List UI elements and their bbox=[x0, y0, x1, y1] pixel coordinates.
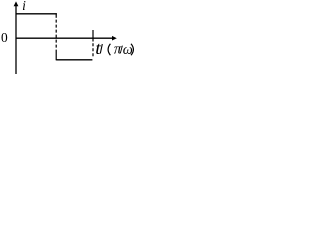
wire lower pulse level bbox=[56, 59, 92, 61]
x-axis bbox=[16, 37, 114, 39]
wire falling edge solid top bbox=[55, 13, 57, 17]
rising edge dashed bbox=[92, 43, 94, 57]
svg-text:0: 0 bbox=[1, 30, 8, 45]
svg-text:i: i bbox=[22, 0, 26, 13]
wire top pulse level bbox=[16, 13, 57, 15]
svg-text:π: π bbox=[114, 42, 122, 58]
label ) bbox=[131, 44, 133, 56]
tick mark on t axis bbox=[92, 30, 94, 42]
wire falling edge dashed bbox=[55, 20, 57, 53]
x-axis arrowhead bbox=[112, 36, 117, 41]
y-axis arrowhead bbox=[14, 1, 19, 6]
y-axis bbox=[15, 5, 17, 74]
label ( bbox=[108, 44, 110, 56]
label slash in pi/omega bbox=[120, 46, 122, 54]
svg-text:t: t bbox=[95, 38, 101, 58]
label slash after t bbox=[100, 44, 102, 54]
wire falling edge solid bottom bbox=[55, 53, 57, 61]
